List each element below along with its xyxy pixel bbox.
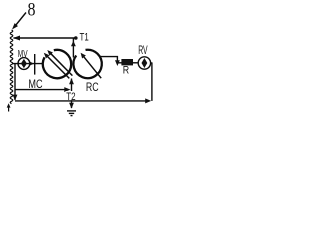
break line (torn edge) xyxy=(10,30,13,104)
bottom bus wire xyxy=(15,100,146,102)
pointer arrow 1 (bottom left) xyxy=(7,103,11,111)
svg-text:RV: RV xyxy=(138,43,147,57)
arrowhead right on bus xyxy=(145,98,151,103)
stub RC to R xyxy=(100,57,117,61)
RC arrow xyxy=(81,53,102,78)
machine MC circle xyxy=(43,50,71,78)
svg-text:T1: T1 xyxy=(80,31,89,43)
wire R to RV xyxy=(133,62,139,64)
wire RV to right edge xyxy=(151,62,152,64)
machine RC circle xyxy=(73,50,101,78)
svg-text:RC: RC xyxy=(86,80,99,94)
wire T2 vertical xyxy=(71,79,73,109)
arrowhead down on stub xyxy=(115,60,120,66)
arrowhead left on top wire xyxy=(13,36,20,41)
label T2 xyxy=(66,91,77,100)
junction dot T1 xyxy=(74,36,78,40)
valve MV xyxy=(18,58,30,70)
MC arrow 1 xyxy=(44,53,70,79)
arrowhead down on left drop xyxy=(13,95,18,101)
arrowhead up at machines xyxy=(69,78,74,84)
ground xyxy=(67,111,76,116)
wire T1 down to machines xyxy=(72,38,74,58)
MC arrow 2 xyxy=(47,50,72,76)
arrowhead into plate xyxy=(29,61,34,65)
svg-text:8: 8 xyxy=(28,0,36,21)
wire left (break line to MC) xyxy=(12,63,43,65)
arrowhead up on T1 wire xyxy=(71,41,76,46)
resistor R block xyxy=(121,59,133,65)
arrowhead right on MC wire xyxy=(64,87,70,92)
wire MC to T2 xyxy=(15,89,65,91)
svg-text:MC: MC xyxy=(28,77,42,91)
leader arrow from 8 to break line xyxy=(12,13,26,30)
valve RV xyxy=(138,57,150,69)
wire to R xyxy=(117,62,122,64)
plate (partition bar) xyxy=(34,54,36,75)
arrowhead down to ground xyxy=(69,103,74,109)
svg-text:R: R xyxy=(123,64,129,76)
top wire xyxy=(14,37,76,39)
wire left drop xyxy=(14,64,16,100)
wire right edge down xyxy=(151,62,153,101)
